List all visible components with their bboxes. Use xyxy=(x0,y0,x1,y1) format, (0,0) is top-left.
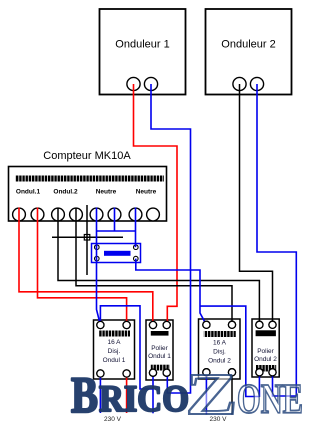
relay K1 pin bottom-left xyxy=(95,256,100,261)
terminal M1-6 xyxy=(108,208,121,221)
meter P1 solid bar xyxy=(151,331,169,336)
terminal P2 top-left xyxy=(256,321,263,328)
wire blue: F2 bottom-left to 230V xyxy=(205,372,207,414)
svg-text:Compteur MK10A: Compteur MK10A xyxy=(43,150,131,162)
terminal overdraw P1 bottom-left xyxy=(149,369,156,376)
wire blue: relay K1 bottom-right to F2 top-left xyxy=(136,259,207,325)
watermark logo "Brico" xyxy=(71,368,189,424)
wire blue: U2 pin N to P2 bottom-right xyxy=(257,84,296,396)
terminal overdraw F2 bottom-left xyxy=(203,369,210,376)
terminal P1 bottom-right xyxy=(163,369,170,376)
terminal overdraw F1 bottom-right xyxy=(123,370,130,377)
meter P2 striped bar xyxy=(256,365,276,372)
terminal F2 bottom-left xyxy=(203,369,210,376)
terminal F1 bottom-right xyxy=(123,370,130,377)
wire blue: F1 top-left up and over to logo area xyxy=(100,306,152,389)
breaker F1 box "16 A Disj. Ondul 1" xyxy=(94,320,135,379)
svg-text:B: B xyxy=(71,368,98,424)
wire blue: U1 pin N to P1 bottom-right xyxy=(151,84,191,393)
wire blue: M1-6 stub down xyxy=(114,208,116,232)
meter P2 solid bar xyxy=(256,330,276,336)
svg-text:Onduleur 2: Onduleur 2 xyxy=(221,39,275,51)
wire blue: branch from relay line over to right of F2 down to P2 bottom-left xyxy=(200,306,259,396)
svg-text:Ondul 1: Ondul 1 xyxy=(103,357,126,364)
wire black: M1-3 to P2 top-left xyxy=(58,208,259,325)
svg-text:Onduleur 1: Onduleur 1 xyxy=(115,39,169,51)
terminal overdraw P1 top-right xyxy=(163,321,170,328)
wire red: U1 pin L to P1 top-right xyxy=(134,84,178,325)
wire blue: M1-5 through relay K1 left pins to F1 top-left xyxy=(97,208,101,326)
terminal overdraw P1 top-left xyxy=(149,321,156,328)
meter M1 box Compteur MK10A xyxy=(9,167,167,222)
terminal overdraw F1 top-right xyxy=(123,321,130,328)
terminal P1 top-left xyxy=(149,321,156,328)
terminal overdraw F2 top-right xyxy=(228,321,235,328)
svg-text:Polier: Polier xyxy=(151,345,168,352)
svg-text:Ondul 1: Ondul 1 xyxy=(148,353,171,360)
svg-text:ONE: ONE xyxy=(237,377,303,423)
terminal overdraw F2 top-left xyxy=(203,321,210,328)
terminal overdraw P2 top-left xyxy=(256,321,263,328)
terminal F2 bottom-right xyxy=(228,369,235,376)
terminal P1 bottom-left xyxy=(149,369,156,376)
inverter U1 box "Onduleur 1" xyxy=(100,9,186,95)
wire black: F2 bottom-right to 230V xyxy=(231,372,233,414)
meter P2 box "Polier Ondul 2" xyxy=(252,319,279,377)
terminal U2 pin L xyxy=(233,77,246,90)
terminal M1-1 xyxy=(13,208,26,221)
terminal overdraw F2 bottom-right xyxy=(228,369,235,376)
svg-text:16 A: 16 A xyxy=(213,340,227,347)
meter display barcode bar xyxy=(15,176,164,182)
svg-text:RICO: RICO xyxy=(99,379,189,420)
meter P1 striped bar xyxy=(151,365,170,371)
terminal overdraw P2 bottom-left xyxy=(256,369,263,376)
wire red: F1 bottom-right to 230V xyxy=(126,374,128,414)
wire black: U2 pin L to P2 top-right xyxy=(240,84,273,325)
terminal F1 top-left xyxy=(97,321,104,328)
terminal M1-5 xyxy=(90,208,103,221)
breaker F2 box "16 A Disj. Ondul 2" xyxy=(199,319,241,379)
terminal F1 top-right xyxy=(123,321,130,328)
terminal F1 bottom-left xyxy=(97,370,104,377)
terminal M1-3 xyxy=(52,208,65,221)
svg-text:Neutre: Neutre xyxy=(96,189,117,196)
wire blue: neutral bus horizontal above relay xyxy=(97,230,136,232)
terminal M1-7 xyxy=(129,208,142,221)
terminal P2 top-right xyxy=(269,321,276,328)
relay K1 pin top-right xyxy=(134,245,139,250)
watermark logo "Zone" (outlined) xyxy=(186,361,304,427)
terminal overdraw F1 top-left xyxy=(97,321,104,328)
svg-text:Neutre: Neutre xyxy=(136,189,157,196)
wire red: M1-2 to F1 top-right xyxy=(38,208,127,326)
inverter U2 box "Onduleur 2" xyxy=(206,9,292,95)
svg-text:Z: Z xyxy=(186,361,238,427)
terminal overdraw F1 bottom-left xyxy=(97,370,104,377)
terminal F2 top-left xyxy=(203,321,210,328)
svg-text:Disj.: Disj. xyxy=(108,348,121,355)
terminal P2 bottom-left xyxy=(256,369,263,376)
terminal F2 top-right xyxy=(228,321,235,328)
svg-text:16 A: 16 A xyxy=(107,339,121,346)
terminal M1-4 xyxy=(70,208,83,221)
relay K1 pin bottom-right xyxy=(134,256,139,261)
wire black: horizontal stub at junction X1 xyxy=(52,236,123,238)
wire blue: F1 bottom-left to 230V xyxy=(99,374,101,414)
wire blue: M1-7 to relay K1 top-right xyxy=(135,208,137,248)
terminal M1-8 xyxy=(147,208,160,221)
wire black: stub through junction X1 xyxy=(86,205,88,275)
svg-text:Ondul.2: Ondul.2 xyxy=(53,189,78,196)
terminal U2 pin N xyxy=(250,77,263,90)
terminal U1 pin N xyxy=(144,77,157,90)
terminal overdraw P2 top-right xyxy=(269,321,276,328)
relay K1 box (blue) xyxy=(92,244,141,263)
svg-text:Disj.: Disj. xyxy=(213,349,226,356)
terminal overdraw P1 bottom-right xyxy=(163,369,170,376)
terminal overdraw P2 bottom-right xyxy=(269,369,276,376)
breaker F1 striped bar xyxy=(99,331,130,337)
breaker F2 striped bar xyxy=(204,331,236,337)
wire blue: P2 bottom-left down xyxy=(258,372,260,397)
wire blue: P1 bottom-left down xyxy=(152,373,154,414)
terminal P1 top-right xyxy=(163,321,170,328)
wire red: M1-1 to P1 top-left xyxy=(19,208,153,326)
terminal U1 pin L xyxy=(127,77,140,90)
wire black: M1-4 to F2 top-right xyxy=(76,208,232,325)
terminal M1-2 xyxy=(31,208,44,221)
meter P1 box "Polier Ondul 1" xyxy=(146,320,173,380)
junction X1 (circle with X) xyxy=(84,235,90,241)
svg-text:Polier: Polier xyxy=(257,348,274,355)
relay K1 coil (solid blue bar) xyxy=(104,251,131,256)
relay K1 pin top-left xyxy=(95,245,100,250)
svg-text:Ondul 2: Ondul 2 xyxy=(254,356,277,363)
svg-text:Ondul.1: Ondul.1 xyxy=(16,189,41,196)
terminal P2 bottom-right xyxy=(269,369,276,376)
